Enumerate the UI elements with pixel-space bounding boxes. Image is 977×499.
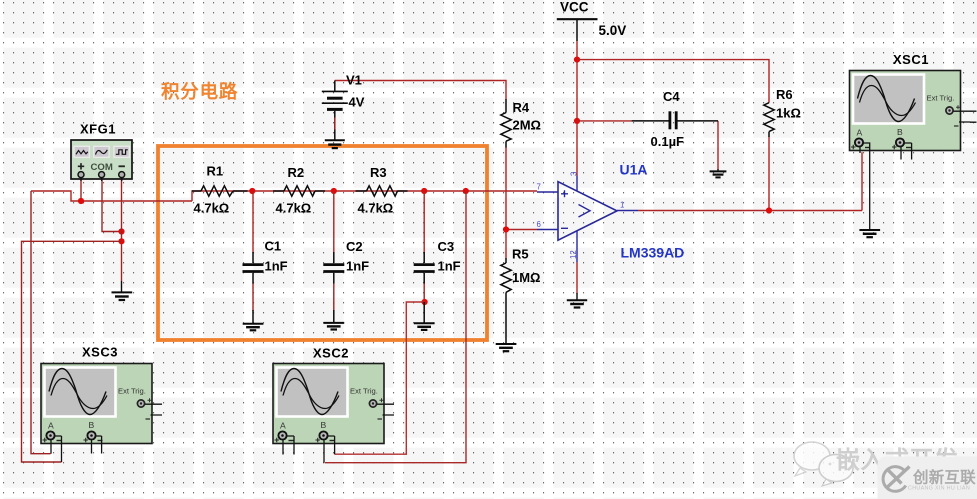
svg-text:C2: C2 <box>346 239 363 254</box>
wire C3 bottom segment <box>423 283 425 302</box>
battery V1 <box>322 73 365 141</box>
junction op-amp plus node <box>463 188 469 194</box>
capacitor C3 <box>414 239 461 284</box>
svg-text:1nF: 1nF <box>265 259 288 274</box>
wire C2 top <box>333 191 335 253</box>
wire C3 junction to XSC2 B minus <box>335 302 425 454</box>
svg-text:C3: C3 <box>438 239 455 254</box>
resistor R6 <box>764 87 801 137</box>
svg-text:1MΩ: 1MΩ <box>512 270 540 285</box>
capacitor C2 <box>323 239 369 284</box>
svg-text:4.7kΩ: 4.7kΩ <box>194 201 230 216</box>
svg-text:XSC1: XSC1 <box>893 52 929 67</box>
wire node N2 to op-amp minus input <box>506 229 537 231</box>
wire op-amp pin 12 to ground <box>576 262 578 293</box>
svg-text:2MΩ: 2MΩ <box>513 118 541 133</box>
svg-text:4.7kΩ: 4.7kΩ <box>358 201 394 216</box>
capacitor C4 <box>632 89 718 149</box>
op-amp U1A LM339AD <box>537 162 685 263</box>
oscilloscope XSC2 <box>273 346 394 444</box>
capacitor C1 <box>243 239 288 284</box>
resistor R5 <box>501 247 541 344</box>
power VCC <box>557 0 626 41</box>
ground under C2 <box>324 310 345 330</box>
wire C4 right down to ground <box>717 121 719 169</box>
annotation box 积分电路 region <box>158 146 487 340</box>
resistor R4 <box>501 99 541 148</box>
junction C3 bottom / XSC2 B minus branch <box>422 299 428 305</box>
wire XFG1 plus to R1 (node IN) <box>31 191 537 201</box>
junction R2 right <box>331 188 337 194</box>
wire C2 bottom to ground <box>333 283 335 311</box>
svg-text:7: 7 <box>537 183 541 192</box>
svg-text:R3: R3 <box>370 165 387 180</box>
wire XFG1 COM down <box>102 179 122 232</box>
svg-text:XFG1: XFG1 <box>80 122 116 137</box>
wire XSC1 A minus to ground <box>864 143 870 230</box>
wire XFG1 minus down to ground <box>121 179 123 282</box>
oscilloscope XSC1 <box>850 52 971 151</box>
junction COM/minus <box>118 228 124 234</box>
function generator XFG1 <box>71 122 132 182</box>
wire XSC3 B stubs <box>92 436 102 454</box>
svg-text:V1: V1 <box>346 73 362 88</box>
junction minus/XSC3 branch <box>118 238 124 244</box>
wire XSC3 A minus lead <box>55 436 62 462</box>
svg-text:4V: 4V <box>349 95 365 110</box>
wire VCC junction to C4 left <box>577 120 632 122</box>
svg-text:3: 3 <box>570 172 579 176</box>
wire VCC rail down to op-amp pin 3 <box>576 41 578 176</box>
wire XFG1 plus down to junction <box>80 179 82 202</box>
wire C3 top <box>423 191 425 253</box>
svg-text:5.0V: 5.0V <box>599 23 627 38</box>
svg-text:1nF: 1nF <box>438 259 461 274</box>
resistor R2 <box>273 165 325 216</box>
svg-text:创新互联: 创新互联 <box>912 468 976 487</box>
wire XSC2 B plus lead <box>323 440 325 463</box>
svg-text:VCC: VCC <box>560 0 589 15</box>
junction R3 right <box>421 188 427 194</box>
junction node IN / R1 right <box>249 188 255 194</box>
wire XSC1 B stubs <box>901 143 912 160</box>
ground under op-amp pin 12 <box>567 293 587 308</box>
ground under C1 <box>243 310 264 330</box>
ground under C4 <box>710 169 727 177</box>
label 积分电路 <box>161 81 238 102</box>
wire XSC2 B minus lead <box>328 436 335 454</box>
svg-text:1kΩ: 1kΩ <box>776 106 801 121</box>
junction VCC / C4 branch <box>574 118 580 124</box>
wire R6 bottom to output node <box>768 137 770 211</box>
wire XSC2 A stubs <box>283 436 294 455</box>
svg-text:0.1µF: 0.1µF <box>651 134 685 149</box>
resistor R1 <box>192 164 248 216</box>
svg-text:R1: R1 <box>207 164 224 179</box>
wire V1 to R4 <box>335 81 506 100</box>
svg-text:LM339AD: LM339AD <box>621 245 685 261</box>
svg-text:R6: R6 <box>776 87 793 102</box>
ground under R5 <box>496 344 517 351</box>
svg-text:C4: C4 <box>663 89 680 104</box>
wire C1 bottom to ground <box>252 283 254 311</box>
ground under V1 <box>325 140 345 148</box>
wire op-amp output to XSC1 A <box>638 152 862 210</box>
wire branch to XSC3 A minus <box>22 241 122 462</box>
svg-text:积分电路: 积分电路 <box>161 81 238 102</box>
ground under XFG1 minus <box>112 281 133 300</box>
svg-text:R4: R4 <box>513 100 530 115</box>
junction node N2 <box>503 226 509 232</box>
wire VCC to R6 top <box>577 60 769 103</box>
svg-text:12: 12 <box>569 250 578 259</box>
junction VCC / R6 branch <box>574 57 580 63</box>
junction output / R6 <box>766 207 772 213</box>
svg-text:R5: R5 <box>512 247 529 262</box>
ground under XSC1 A minus <box>859 230 880 237</box>
svg-text:XSC2: XSC2 <box>313 346 349 361</box>
wire R4 bottom to node N2 and to R5 <box>505 147 507 258</box>
svg-text:XSC3: XSC3 <box>82 345 118 360</box>
svg-text:1: 1 <box>620 201 624 210</box>
resistor R3 <box>356 165 408 216</box>
logo box 创新互联 <box>878 457 977 499</box>
wire XSC3 A lead <box>50 440 52 454</box>
wire C1 top <box>252 191 254 253</box>
svg-text:C1: C1 <box>265 239 282 254</box>
svg-text:U1A: U1A <box>620 162 648 178</box>
junction node IN at XFG1 plus <box>78 198 84 204</box>
watermark text 嵌入式 <box>836 446 959 474</box>
oscilloscope XSC3 <box>41 345 162 444</box>
watermark speech bubbles <box>794 442 853 486</box>
svg-text:4.7kΩ: 4.7kΩ <box>276 201 312 216</box>
svg-text:R2: R2 <box>288 165 305 180</box>
svg-text:6: 6 <box>537 220 541 229</box>
svg-text:1nF: 1nF <box>346 259 369 274</box>
wire XSC1 A lead <box>859 147 861 153</box>
svg-text:CHUANG XIN HU LIAN: CHUANG XIN HU LIAN <box>908 486 970 492</box>
wire XSC1 ext trig stub extension <box>970 111 977 122</box>
ground under C3 <box>414 302 435 330</box>
wire plus node down to XSC2 B plus <box>325 191 466 463</box>
wire left branch down to XSC3 A plus <box>31 191 51 454</box>
